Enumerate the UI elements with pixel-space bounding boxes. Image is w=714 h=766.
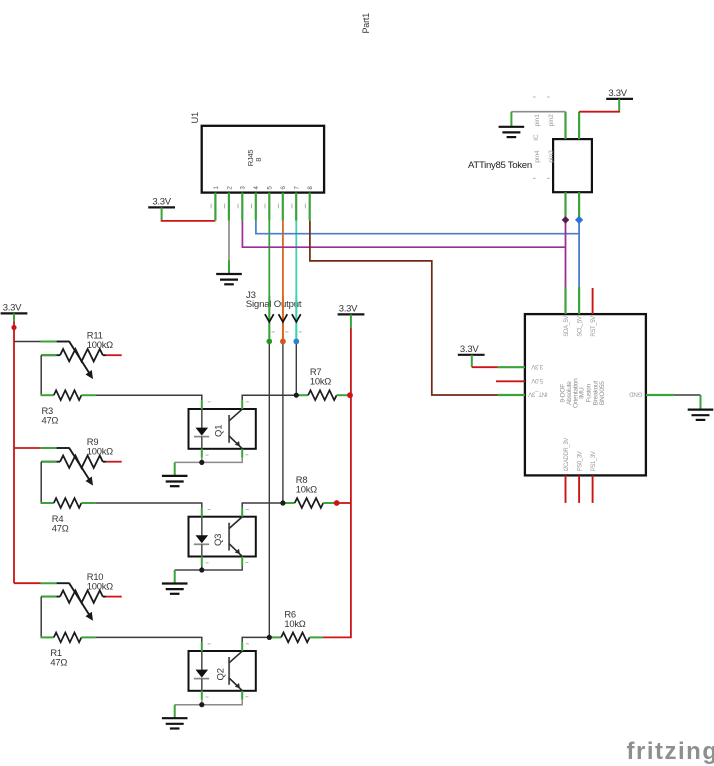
- svg-text:3.3V: 3.3V: [152, 197, 171, 208]
- svg-text:Q3: Q3: [213, 534, 224, 546]
- svg-text:IC: IC: [533, 134, 540, 141]
- U1 pin 6: [282, 193, 284, 221]
- node R6 junction: [267, 635, 272, 640]
- Q2 pin anode: [201, 642, 203, 651]
- svg-text:Part1: Part1: [361, 13, 371, 34]
- svg-text:3.3V: 3.3V: [339, 304, 358, 315]
- optocoupler Q1: [189, 409, 256, 449]
- wire Q1 cathode to ground node: [201, 458, 203, 463]
- node R7 junction: [294, 393, 299, 398]
- node junction Q2 emitter: [199, 702, 204, 707]
- wire Q3 cathode to ground node: [201, 565, 203, 570]
- wire Q2 cathode to ground node: [201, 700, 203, 705]
- optocoupler Q2: [189, 651, 256, 691]
- svg-text:3.3V: 3.3V: [460, 344, 479, 355]
- IC ATTiny85 Token: [553, 139, 592, 192]
- wire rail to R9 wiper (red): [14, 447, 41, 449]
- connector J3 pad1 arrow: [265, 314, 274, 322]
- wire Q3 collector to node: [242, 503, 283, 508]
- ground at BNO055 GND: [688, 409, 714, 411]
- BNO055 pin 3.3V: [498, 366, 525, 368]
- wire Q2 collector to node: [242, 637, 269, 642]
- svg-text:GND: GND: [629, 391, 643, 398]
- node junction Q1 emitter: [199, 460, 204, 465]
- ATTiny85 pin3: [578, 192, 580, 220]
- ground at RJ45 pin2: [216, 273, 242, 275]
- svg-text:SCL_5V: SCL_5V: [578, 316, 584, 336]
- Q2 internal LED: [201, 651, 203, 670]
- connector J3 pad3 arrow: [292, 314, 301, 322]
- wire R10 pin1 to R1: [40, 597, 42, 638]
- Q1 pin emitter: [241, 449, 243, 458]
- power 3.3V symbol at BNO055: [458, 354, 485, 356]
- U1 pin 8: [309, 193, 311, 221]
- resistor R6 10k: [269, 636, 281, 638]
- svg-text:BNO055: BNO055: [599, 381, 606, 405]
- BNO055 pin GND: [646, 394, 674, 396]
- resistor R7 10k: [296, 394, 308, 396]
- wire RJ45 pin5 to J3 pad1 (green): [268, 221, 270, 342]
- svg-text:pin1: pin1: [534, 114, 541, 127]
- IC BNO055 9-DOF IMU breakout: [525, 314, 646, 475]
- svg-text:1: 1: [213, 186, 220, 190]
- U1 pin 5: [268, 193, 270, 221]
- BNO055 pin I2CADDR_3V with dangling red wire: [565, 475, 567, 503]
- Q1 pin cathode: [201, 449, 203, 458]
- BNO055 pin PS1_3V with dangling red wire: [592, 475, 594, 503]
- wire RJ45 pin3 to SDA net (purple): [242, 221, 565, 248]
- wire 3.3V pull-up rail (red): [323, 328, 351, 638]
- wire Q3 emitter to ground node: [202, 565, 242, 570]
- node via SCL (blue diamond): [575, 216, 583, 224]
- wire R9 pin1 to R4: [40, 462, 42, 503]
- wire 3.3V to BNO055 3.3V pin (red): [472, 366, 498, 368]
- wire 3.3V rail left (red): [13, 322, 15, 584]
- potentiometer R9 100k: [41, 447, 57, 449]
- BNO055 pin INT_3V: [498, 394, 525, 396]
- svg-text:I2CADDR_3V: I2CADDR_3V: [564, 438, 570, 472]
- IC U1 RJ45 jack: [202, 126, 324, 193]
- Q2 pin collector: [241, 642, 243, 651]
- svg-text:SDA_5V: SDA_5V: [564, 315, 570, 336]
- svg-text:pin3: pin3: [548, 150, 555, 163]
- wire ATTiny85 pin1 to ground (gray): [511, 111, 565, 113]
- power 3.3V symbol top-right: [606, 98, 633, 100]
- ground under Q2: [162, 717, 188, 719]
- svg-text:6: 6: [280, 186, 287, 190]
- power 3.3V symbol above pull-up rail: [338, 313, 365, 315]
- resistor R1 47ohm: [41, 636, 54, 638]
- node J3 pad2 junction (orange): [280, 339, 286, 345]
- Q3 pin collector: [241, 508, 243, 517]
- wire 3.3V to ATTiny85 pin2 (red): [579, 111, 619, 112]
- svg-text:47Ω: 47Ω: [52, 522, 69, 533]
- svg-text:2: 2: [226, 186, 233, 190]
- svg-text:100kΩ: 100kΩ: [87, 339, 113, 350]
- wire node to ground g2: [175, 569, 202, 571]
- svg-text:5: 5: [267, 186, 274, 190]
- svg-text:INT_3V: INT_3V: [527, 391, 547, 398]
- ground at ATTiny85 pin1: [499, 126, 525, 128]
- wire R1 to Q2 anode: [96, 637, 202, 642]
- wire R8 to rail (red): [337, 502, 351, 504]
- Q3 internal phototransistor: [228, 523, 230, 551]
- node via SDA (purple diamond): [562, 216, 570, 224]
- ground under Q1: [162, 475, 188, 477]
- wire RJ45 pin7 to J3 pad3 (teal): [295, 221, 297, 342]
- svg-text:5.0V: 5.0V: [530, 377, 543, 384]
- wire J3 pad3 to node R7 junction: [295, 341, 297, 395]
- node J3 pad1 junction (green): [267, 339, 273, 345]
- BNO055 pin 5.0V with dangling red wire: [496, 380, 525, 382]
- wire node to ground g3: [175, 704, 202, 706]
- svg-text:fritzing: fritzing: [627, 738, 714, 765]
- node J3 pad3 junction (blue): [293, 339, 299, 345]
- U1 pin 2: [228, 193, 230, 221]
- svg-text:7: 7: [294, 186, 301, 190]
- potentiometer R10 100k: [41, 582, 57, 584]
- wire R9 pin2 dangling stub (red): [106, 461, 121, 463]
- wire R4 to Q3 anode: [96, 503, 202, 508]
- svg-text:Signal Output: Signal Output: [246, 299, 302, 310]
- Q1 internal phototransistor: [228, 415, 230, 443]
- svg-text:3: 3: [240, 186, 247, 190]
- svg-text:8: 8: [307, 186, 314, 190]
- wire J3 overdraw pad1 (green): [268, 296, 270, 341]
- wire R3 to Q1 anode: [96, 395, 202, 400]
- node R8 junction: [280, 500, 285, 505]
- U1 pin 3: [241, 193, 243, 221]
- wire 3.3V to RJ45 pin1 (red): [162, 220, 216, 221]
- wire RJ45 pin2 to ground (gray): [228, 221, 230, 261]
- ATTiny85 pin4: [564, 192, 566, 220]
- svg-text:4: 4: [253, 186, 260, 190]
- ATTiny85 pin2: [578, 112, 580, 139]
- wire rail to R10 wiper (red): [14, 582, 41, 584]
- svg-text:10kΩ: 10kΩ: [296, 483, 317, 494]
- optocoupler Q3: [189, 517, 256, 557]
- svg-text:ATTiny85 Token: ATTiny85 Token: [468, 160, 532, 171]
- svg-text:3.3V: 3.3V: [608, 88, 627, 99]
- wire Q1 emitter to ground node: [202, 458, 242, 463]
- wire J3 overdraw pad3 (teal): [295, 296, 297, 341]
- svg-text:47Ω: 47Ω: [42, 415, 59, 426]
- svg-text:10kΩ: 10kΩ: [310, 376, 331, 387]
- wire Q2 emitter to ground node: [202, 700, 242, 705]
- svg-text:47Ω: 47Ω: [50, 657, 67, 668]
- svg-text:PS0_3V: PS0_3V: [578, 451, 584, 471]
- node R8 rail junction (red): [334, 500, 340, 506]
- U1 pin 1: [214, 193, 216, 221]
- svg-text:3.3V: 3.3V: [3, 303, 22, 314]
- resistor R8 10k: [283, 502, 295, 504]
- svg-text:100kΩ: 100kΩ: [87, 580, 113, 591]
- wire rail to R11 wiper (black): [14, 341, 41, 343]
- svg-text:U1: U1: [190, 112, 200, 124]
- wire RJ45 pin4 to SCL net (blue): [256, 221, 579, 234]
- Q2 pin cathode: [201, 691, 203, 700]
- power 3.3V symbol top-left: [1, 312, 28, 314]
- Q2 internal phototransistor: [228, 657, 230, 685]
- wire R10 pin2 dangling stub (red): [106, 596, 121, 598]
- Q1 pin collector: [241, 400, 243, 409]
- Q3 pin anode: [201, 508, 203, 517]
- Q2 pin emitter: [241, 691, 243, 700]
- wire Q1 collector to node: [242, 395, 296, 400]
- wire BNO055 GND to ground: [674, 394, 701, 396]
- svg-text:pin4: pin4: [534, 150, 541, 163]
- BNO055 pin PS0_3V with dangling red wire: [578, 475, 580, 503]
- svg-text:8: 8: [254, 158, 263, 162]
- BNO055 pin RST_5V with dangling red wire: [592, 288, 594, 314]
- wire R11 pin1 to R3: [40, 355, 42, 395]
- wire ATTiny85 pin3 to BNO055 SCL_5V (blue): [578, 220, 580, 287]
- node junction Q3 emitter: [199, 567, 204, 572]
- BNO055 pin SDA_5V: [564, 287, 566, 314]
- U1 pin 7: [295, 193, 297, 221]
- svg-text:PS1_3V: PS1_3V: [591, 451, 597, 471]
- Q1 pin anode: [201, 400, 203, 409]
- U1 pin 4: [255, 193, 257, 221]
- resistor R3 47ohm: [41, 394, 54, 396]
- svg-text:RST_5V: RST_5V: [591, 316, 597, 337]
- wire node to ground g1: [175, 461, 202, 463]
- wire J3 overdraw pad2 (orange): [282, 296, 284, 341]
- wire J3 pad2 to node R8 junction: [282, 341, 284, 503]
- svg-text:10kΩ: 10kΩ: [284, 618, 305, 629]
- ATTiny85 pin1: [564, 112, 566, 139]
- node R7 rail junction (red): [347, 392, 353, 398]
- connector J3 pad2 arrow: [279, 314, 288, 322]
- power 3.3V symbol at RJ45 pin1: [148, 206, 175, 208]
- wire R11 pin2 dangling stub (red): [106, 354, 121, 356]
- wire RJ45 pin8 to BNO055 INT_3V (dark red): [310, 221, 498, 395]
- potentiometer R11 100k: [41, 341, 57, 343]
- Q3 internal LED: [201, 517, 203, 536]
- svg-text:Q1: Q1: [214, 425, 225, 437]
- Q3 pin cathode: [201, 557, 203, 566]
- svg-text:3.3V: 3.3V: [530, 363, 543, 370]
- ground under Q3: [162, 582, 188, 584]
- svg-text:100kΩ: 100kΩ: [87, 446, 113, 457]
- Q1 internal LED: [201, 409, 203, 428]
- Q3 pin emitter: [241, 557, 243, 566]
- wire RJ45 pin6 to J3 pad2 (orange): [282, 221, 284, 342]
- node junction 3.3V rail: [11, 325, 16, 330]
- resistor R4 47ohm: [41, 502, 54, 504]
- svg-text:Q2: Q2: [216, 668, 227, 680]
- BNO055 pin SCL_5V: [578, 287, 580, 314]
- svg-text:pin2: pin2: [548, 114, 555, 127]
- wire J3 pad1 to node R6 junction: [268, 341, 270, 637]
- wire ATTiny85 pin4 to BNO055 SDA_5V (purple): [565, 220, 567, 287]
